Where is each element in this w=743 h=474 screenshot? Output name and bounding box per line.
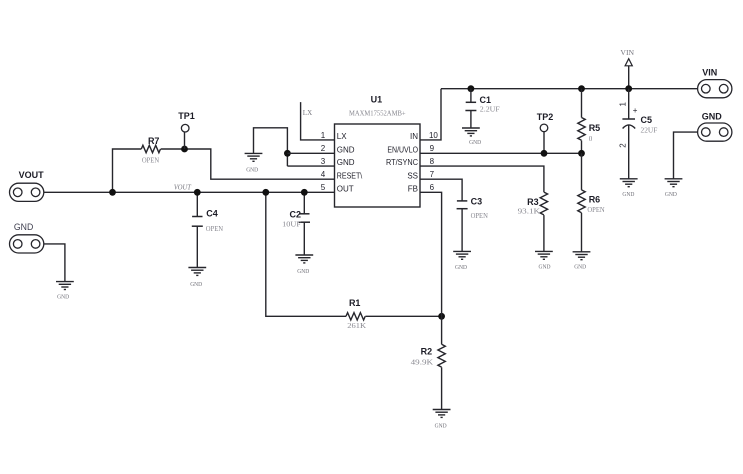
wire C5 top stem <box>628 89 630 119</box>
svg-text:LX: LX <box>303 109 312 117</box>
svg-text:GND: GND <box>337 145 355 154</box>
ground (R2) <box>433 410 451 418</box>
wire C4 bottom stem <box>196 226 198 267</box>
svg-text:LX: LX <box>337 132 347 141</box>
connector J-GND (right GND port) <box>698 123 732 141</box>
resistor R6 <box>573 153 605 270</box>
wire input rail <box>441 88 698 90</box>
ground (right connector) <box>665 179 683 187</box>
connector J-VOUT (left VOUT port) <box>10 183 44 201</box>
svg-text:8: 8 <box>430 157 435 166</box>
node R5/rail junction <box>578 85 585 92</box>
svg-text:GND: GND <box>297 268 309 275</box>
svg-text:GND: GND <box>337 158 355 167</box>
svg-text:GND: GND <box>622 191 634 198</box>
capacitor C2 <box>282 189 313 275</box>
wire LX stub to pin 1 <box>301 102 335 140</box>
svg-text:RESET\: RESET\ <box>337 171 363 180</box>
resistor R2 <box>411 316 451 429</box>
node R7/VOUT junction <box>109 189 116 196</box>
wire R7 branch up from VOUT row <box>113 149 142 192</box>
svg-text:OPEN: OPEN <box>471 212 488 220</box>
wire pin 6 FB down to divider <box>420 192 442 316</box>
svg-text:GND: GND <box>469 139 481 146</box>
svg-text:+: + <box>633 106 638 115</box>
capacitor C1 <box>462 85 500 146</box>
svg-text:1: 1 <box>321 131 326 140</box>
capacitor C5 top plate <box>622 118 635 120</box>
wire C2 top stem <box>303 192 305 214</box>
svg-text:FB: FB <box>408 185 418 194</box>
wire R5 bottom stem <box>581 141 583 154</box>
capacitor C1 plates <box>466 101 476 103</box>
svg-text:TP1: TP1 <box>178 111 195 121</box>
node tap/VOUT junction <box>262 189 269 196</box>
svg-text:49.9K: 49.9K <box>411 358 434 366</box>
ground (R6) <box>573 252 591 260</box>
wire R2 top stem <box>441 316 443 344</box>
svg-text:2: 2 <box>321 144 326 153</box>
wire C3 bottom stem <box>461 209 463 252</box>
svg-text:GND: GND <box>435 423 447 430</box>
node FB divider junction <box>438 313 445 320</box>
svg-text:7: 7 <box>430 170 435 179</box>
svg-text:OPEN: OPEN <box>206 225 223 233</box>
ground (C2) <box>295 255 313 263</box>
svg-text:GND: GND <box>665 191 677 198</box>
svg-text:RT/SYNC: RT/SYNC <box>386 158 418 167</box>
svg-text:1: 1 <box>619 102 628 107</box>
svg-text:3: 3 <box>321 157 326 166</box>
testpoint TP1 <box>181 124 189 132</box>
svg-text:5: 5 <box>321 183 326 192</box>
node C4/VOUT junction <box>194 189 201 196</box>
wire R2 bottom stem <box>441 367 443 409</box>
wire pin 10 up to input rail <box>420 89 441 140</box>
svg-text:C2: C2 <box>289 209 301 219</box>
svg-text:GND: GND <box>14 222 34 232</box>
svg-text:R6: R6 <box>589 194 601 204</box>
node pin2 GND junction <box>284 150 291 157</box>
capacitor C5 (polarized) <box>619 89 658 198</box>
capacitor C2 plates <box>299 213 309 215</box>
svg-text:GND: GND <box>455 264 467 271</box>
op-amp / IC U1 box <box>335 124 421 207</box>
capacitor C4 <box>188 189 223 288</box>
ground (IC GND pins) <box>245 153 263 161</box>
svg-text:GND: GND <box>190 281 202 288</box>
svg-text:GND: GND <box>539 263 551 270</box>
svg-text:R5: R5 <box>589 123 601 133</box>
wire C2 bottom stem <box>303 222 305 255</box>
capacitor C4 plates <box>192 216 202 218</box>
node R5/R6/EN junction <box>578 150 585 157</box>
svg-text:93.1K: 93.1K <box>518 207 541 215</box>
ground (C3) <box>453 251 471 259</box>
svg-text:VOUT: VOUT <box>174 184 192 192</box>
wire R6 bottom stem <box>581 213 583 252</box>
node TP1 junction <box>181 146 188 153</box>
svg-text:R7: R7 <box>148 136 160 146</box>
svg-text:0: 0 <box>589 135 593 143</box>
wire R7 to TP1 node to corner, down to RESET row <box>161 149 335 179</box>
wire right GND connector to ground <box>674 132 698 179</box>
svg-text:261K: 261K <box>347 322 366 330</box>
node VIN/rail junction <box>625 85 632 92</box>
svg-text:EN/UVLO: EN/UVLO <box>387 145 418 154</box>
svg-text:R3: R3 <box>527 197 539 207</box>
svg-text:C5: C5 <box>641 115 653 125</box>
wire C1 bottom stem <box>470 111 472 129</box>
svg-text:C4: C4 <box>206 209 218 219</box>
svg-text:R1: R1 <box>349 298 361 308</box>
testpoint TP2 <box>540 124 548 132</box>
svg-text:GND: GND <box>574 264 586 271</box>
svg-text:VIN: VIN <box>620 49 634 57</box>
capacitor C5 curved plate <box>623 125 636 129</box>
resistor R1 <box>346 313 365 320</box>
ground (C4) <box>188 268 206 276</box>
resistor R3 <box>540 192 547 215</box>
svg-text:TP2: TP2 <box>537 112 554 122</box>
wire C4 top stem <box>196 192 198 216</box>
svg-text:GND: GND <box>57 293 69 300</box>
wire GND hook to IC pins 2,3 <box>254 128 288 166</box>
ground (C1) <box>462 128 480 136</box>
svg-text:22UF: 22UF <box>641 126 658 134</box>
svg-text:9: 9 <box>430 144 435 153</box>
wire R6 top stem <box>581 153 583 190</box>
svg-text:10UF: 10UF <box>282 221 301 229</box>
svg-text:U1: U1 <box>371 95 383 105</box>
svg-text:10: 10 <box>429 131 438 140</box>
svg-text:OUT: OUT <box>337 185 354 194</box>
svg-text:MAXM17552AMB+: MAXM17552AMB+ <box>349 110 406 118</box>
svg-text:GND: GND <box>702 111 723 121</box>
wire left GND connector to ground <box>44 244 65 282</box>
VIN arrow symbol <box>625 59 632 66</box>
node TP2/EN junction <box>541 150 548 157</box>
wire feedback tap: VOUT row down and across to R1 <box>266 192 346 316</box>
wire VOUT row: connector to IC pin 5 (OUT) <box>44 191 335 193</box>
ground (left connector) <box>56 282 74 290</box>
wire pin 3 <box>287 165 334 167</box>
ground (C5) <box>620 179 638 187</box>
resistor R5 <box>578 85 600 156</box>
ground (R3) <box>535 251 553 259</box>
wire TP2 stem <box>543 132 545 154</box>
svg-text:SS: SS <box>407 171 418 180</box>
svg-text:OPEN: OPEN <box>587 206 604 214</box>
connector J-VIN (right VIN port) <box>698 80 732 98</box>
svg-text:2: 2 <box>619 143 628 148</box>
svg-text:2.2UF: 2.2UF <box>480 106 500 114</box>
svg-text:C3: C3 <box>471 197 483 207</box>
node C2/VOUT junction <box>301 189 308 196</box>
svg-text:OPEN: OPEN <box>142 156 159 164</box>
wire pin 2 <box>287 152 334 154</box>
net port VIN arrow <box>620 49 634 92</box>
capacitor C3 plates <box>457 200 467 202</box>
wire TP1 stem <box>184 132 186 149</box>
wire pin 8 RT/SYNC to R3 <box>420 166 544 192</box>
wire pin 9 EN/UVLO row extension <box>420 152 582 154</box>
svg-text:VOUT: VOUT <box>19 170 45 180</box>
node C1/rail junction <box>468 85 475 92</box>
svg-text:C1: C1 <box>480 95 492 105</box>
wire C5 bottom stem <box>628 125 630 179</box>
wire R5 top stem <box>581 89 583 118</box>
svg-text:6: 6 <box>430 183 435 192</box>
resistor R7 <box>141 145 160 152</box>
svg-text:GND: GND <box>246 166 258 173</box>
svg-text:VIN: VIN <box>702 68 717 78</box>
wire C1 top stem <box>470 89 472 103</box>
wire pin 7 SS to C3 <box>420 179 462 201</box>
svg-text:IN: IN <box>410 132 418 141</box>
svg-text:4: 4 <box>321 170 326 179</box>
connector J-GND (left GND port) <box>10 235 44 253</box>
svg-text:R2: R2 <box>421 347 433 357</box>
wire VIN arrow stem <box>628 66 630 89</box>
wire R1 to FB node <box>365 315 441 317</box>
wire R3 bottom stem <box>543 215 545 251</box>
